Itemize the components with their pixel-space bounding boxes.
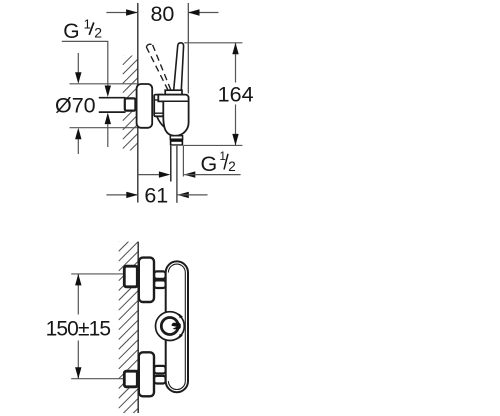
dimension diam70: top ext line <box>70 83 138 85</box>
handle boss outer circle <box>156 312 185 341</box>
dimension 164: top ext line <box>184 42 242 44</box>
svg-text:2: 2 <box>228 159 236 174</box>
dimension diam70: top arrow <box>77 53 79 73</box>
capsule inner contour <box>168 264 185 389</box>
dimension 164: vertical line with text gap <box>235 43 237 83</box>
svg-text:G: G <box>63 20 79 43</box>
escutcheon (lower-bottom) <box>139 352 154 396</box>
dimension 164: bottom ext line <box>183 144 242 146</box>
hose nut <box>170 139 183 145</box>
dimension 80: arrow right <box>188 9 200 15</box>
dimension 150+-15: bottom ext line <box>71 378 124 380</box>
G1/2 arrow up to pipe bottom <box>105 113 111 125</box>
dimension 80: line right <box>188 12 219 14</box>
lever end notch <box>172 323 181 329</box>
dimension 150+-15: vertical line with text gap <box>77 274 79 315</box>
leader of G 1/2 top: underline and bend down to pipe <box>62 41 108 86</box>
escutcheon (lower-top) <box>139 258 154 302</box>
dimension 61: left line + arrow <box>106 194 137 196</box>
dimension diam70: bottom arrow <box>77 138 79 154</box>
escutcheon flange on wall (upper, side view) <box>137 84 153 128</box>
wall face line (also ext line of dims 80 and 61) <box>137 3 139 203</box>
dimension 80: arrow left <box>126 9 138 15</box>
svg-text:164: 164 <box>218 82 254 106</box>
concealed union nut behind wall (lower-bottom) <box>124 371 137 387</box>
dimension 80: line left <box>106 12 137 14</box>
svg-text:1: 1 <box>220 151 226 163</box>
lever hub <box>165 90 182 94</box>
union nut bands (lower-bottom) <box>154 366 165 374</box>
lever handle (solid) <box>174 43 184 90</box>
dimension 80: ext line right <box>187 3 189 94</box>
mixer body capsule (front view) <box>166 261 188 392</box>
dimension 150+-15: top ext line <box>71 273 124 275</box>
concealed union nut behind wall (upper) <box>125 98 136 110</box>
svg-text:1: 1 <box>84 16 91 31</box>
label G 1/2 (top left) <box>63 16 102 43</box>
outlet nipple below body <box>170 136 182 140</box>
wedge bottom-right <box>179 334 183 339</box>
svg-text:G: G <box>201 152 218 176</box>
dimension diam70: bottom ext line <box>70 127 138 129</box>
G1/2 arrow down to pipe top <box>105 86 111 98</box>
wedge top-right <box>179 313 183 318</box>
supply pipe through wall <box>99 99 126 112</box>
handle ring <box>161 318 178 335</box>
svg-text:61: 61 <box>144 184 168 208</box>
wall face line (lower) <box>137 242 139 413</box>
body cap seam <box>158 100 188 102</box>
union nut bands (lower-top) <box>154 271 165 278</box>
svg-text:80: 80 <box>150 2 174 26</box>
G1/2 lower: right arrow with underline tail <box>184 171 196 177</box>
wall hatching (upper) <box>123 41 138 158</box>
S-union curves at body lower-left <box>157 116 166 128</box>
hose / outlet lines below nut <box>170 146 172 182</box>
G1/2 lower: left arrow with tail from wall <box>138 174 160 176</box>
label G 1/2 (lower right) <box>201 151 236 176</box>
dimension 61: right arrow + tail <box>177 192 189 198</box>
mixer body (side view) <box>158 95 188 136</box>
svg-text:2: 2 <box>94 25 102 41</box>
svg-text:150±15: 150±15 <box>46 317 111 340</box>
union nut between flange and body <box>154 95 163 117</box>
wall hatching (lower) <box>119 222 139 416</box>
lever handle (dashed alternate position) <box>146 44 171 90</box>
concealed union nut behind wall (lower-top) <box>124 266 137 287</box>
svg-text:Ø70: Ø70 <box>55 94 96 118</box>
